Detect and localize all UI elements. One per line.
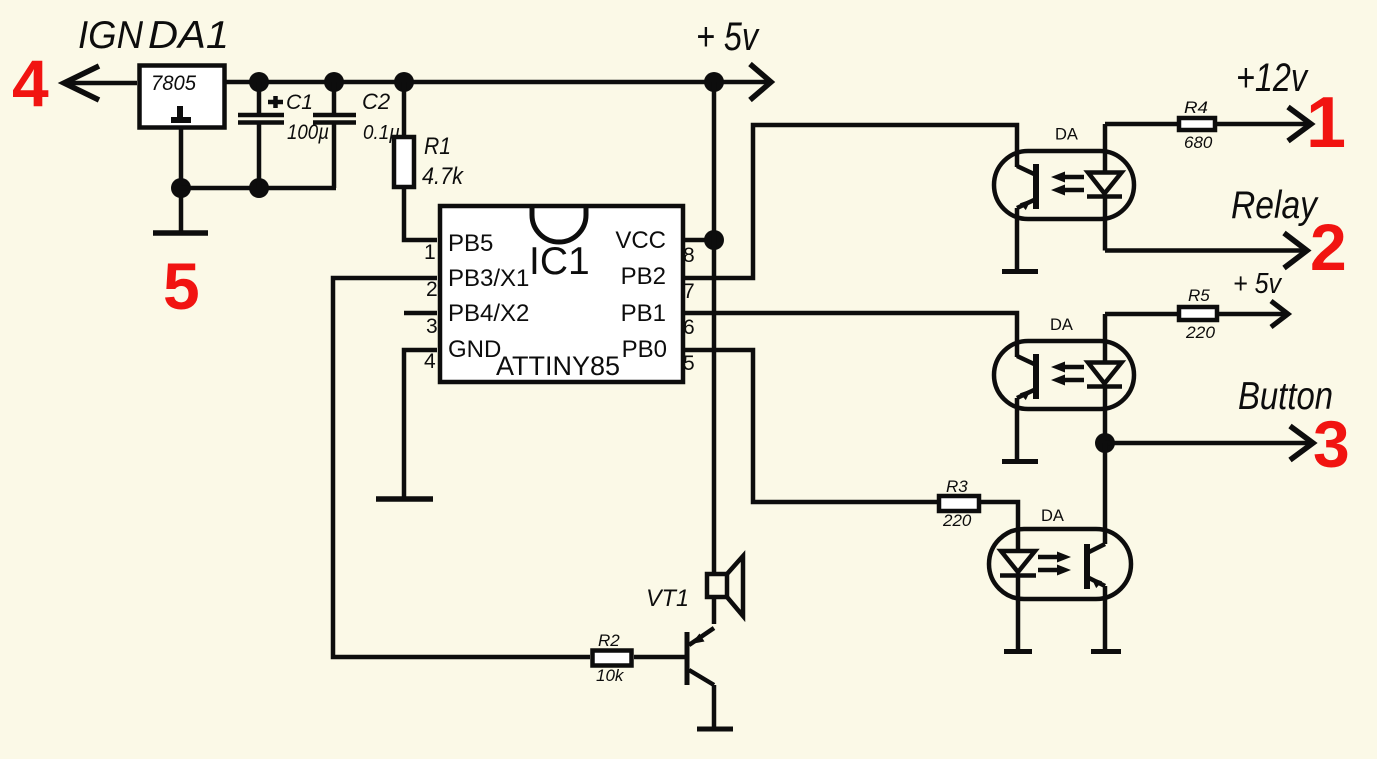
ground (VT1 emitter) xyxy=(697,727,733,732)
opto 2 light arrows xyxy=(1051,362,1084,386)
wire opto 1 LED anode to R4 xyxy=(1105,122,1179,127)
svg-text:PB1: PB1 xyxy=(621,300,666,327)
opto 2 phototransistor xyxy=(1017,354,1036,459)
junction dot button node xyxy=(1095,433,1115,453)
svg-text:R1: R1 xyxy=(424,133,451,160)
terminal bar (opto 3 emitter) xyxy=(1091,649,1121,654)
resistor R3 xyxy=(939,496,979,511)
opto 1 LED xyxy=(1087,124,1122,251)
svg-text:3: 3 xyxy=(426,315,438,338)
junction dot R1 top xyxy=(394,72,414,92)
wire R4 to terminal 1 xyxy=(1215,122,1308,127)
svg-text:DA: DA xyxy=(1041,507,1064,525)
svg-text:PB0: PB0 xyxy=(622,336,667,363)
svg-text:+ 5v: + 5v xyxy=(696,15,760,59)
junction dot ground bus xyxy=(171,178,191,198)
wire pin 7 PB2 to optocoupler 1 xyxy=(684,125,1017,278)
terminal 3 arrowhead xyxy=(1290,426,1313,460)
svg-text:IC1: IC1 xyxy=(529,240,590,283)
svg-text:C1: C1 xyxy=(286,90,313,114)
wire R5 to +5v terminal xyxy=(1217,312,1285,317)
svg-text:DA: DA xyxy=(1055,126,1078,144)
terminal bar (opto 3 LED cathode) xyxy=(1004,649,1032,654)
svg-text:ATTINY85: ATTINY85 xyxy=(496,351,620,381)
svg-text:VT1: VT1 xyxy=(646,585,689,612)
svg-text:R3: R3 xyxy=(946,477,968,496)
+5v rail wire xyxy=(225,80,767,85)
svg-text:R2: R2 xyxy=(598,631,620,650)
capacitor C1 100µ xyxy=(238,82,284,188)
svg-text:VCC: VCC xyxy=(615,227,666,254)
wire pin 8 VCC to +5v rail xyxy=(684,238,714,243)
svg-text:5: 5 xyxy=(683,352,695,375)
wire R2 to VT1 base xyxy=(634,655,687,660)
terminal 4 arrowhead xyxy=(64,66,99,100)
svg-text:1: 1 xyxy=(1306,83,1346,163)
svg-text:10k: 10k xyxy=(596,666,625,685)
opto 1 light arrows xyxy=(1051,172,1084,196)
junction dot VCC xyxy=(704,230,724,250)
svg-text:R5: R5 xyxy=(1188,286,1210,305)
opto 3 light arrows xyxy=(1038,552,1071,576)
svg-text:3: 3 xyxy=(1313,407,1350,481)
wire speaker to VT1 collector xyxy=(712,597,717,624)
IC U1 ATTINY85 body xyxy=(440,206,683,382)
terminal 2 arrowhead xyxy=(1284,233,1307,268)
opto 3 LED xyxy=(1000,551,1036,649)
resistor R4 xyxy=(1179,118,1215,130)
ground (opto 2 emitter) xyxy=(1002,459,1038,464)
svg-text:8: 8 xyxy=(683,244,695,267)
wire opto 3 collector to button node xyxy=(1103,443,1108,544)
+5v rail arrowhead xyxy=(750,64,771,100)
svg-text:PB2: PB2 xyxy=(621,263,666,290)
svg-text:5: 5 xyxy=(163,249,200,323)
speaker LS1 xyxy=(707,556,743,616)
wire R3 to optocoupler 3 LED xyxy=(981,502,1018,551)
resistor R2 xyxy=(593,651,632,666)
svg-text:GND: GND xyxy=(448,336,501,363)
capacitor C2 0.1µ xyxy=(313,82,356,188)
junction dot +5v rail xyxy=(704,72,724,92)
svg-text:4.7k: 4.7k xyxy=(422,163,465,190)
svg-text:DA: DA xyxy=(1050,316,1073,334)
wire pin 2 PB3 to R2 xyxy=(333,278,590,657)
terminal 1 arrowhead xyxy=(1288,107,1311,141)
svg-text:+ 5v: + 5v xyxy=(1233,268,1282,300)
transistor VT1 xyxy=(687,628,714,727)
optocoupler DA (bottom) body xyxy=(989,529,1131,599)
svg-text:7: 7 xyxy=(683,280,695,303)
junction dot C1 bottom xyxy=(249,178,269,198)
wire +5v rail down to speaker xyxy=(712,82,717,574)
svg-text:7805: 7805 xyxy=(151,71,197,95)
svg-text:PB4/X2: PB4/X2 xyxy=(448,300,529,327)
svg-text:220: 220 xyxy=(942,511,972,530)
ground (DA1) xyxy=(153,230,208,236)
wire opto 1 LED cathode to terminal 2 xyxy=(1105,248,1304,253)
wire ground bus xyxy=(181,186,336,191)
svg-text:6: 6 xyxy=(683,316,695,339)
junction dot C1 top xyxy=(249,72,269,92)
svg-text:DA1: DA1 xyxy=(148,14,229,57)
svg-text:680: 680 xyxy=(1184,133,1213,152)
wire pin 5 PB0 to R3 xyxy=(684,350,937,502)
svg-text:PB3/X1: PB3/X1 xyxy=(448,265,529,292)
wire DA1 ground stem xyxy=(179,129,184,231)
svg-text:C2: C2 xyxy=(362,89,390,114)
wire pin 3 stub xyxy=(404,311,437,316)
wire R1 to pin 1 xyxy=(404,187,437,240)
resistor R5 xyxy=(1179,307,1217,320)
wire opto 2 LED anode to R5 xyxy=(1105,312,1179,317)
opto 1 phototransistor xyxy=(1017,164,1036,269)
svg-text:Relay: Relay xyxy=(1231,184,1319,227)
junction dot C2 top xyxy=(324,72,344,92)
svg-text:PB5: PB5 xyxy=(448,230,493,257)
opto 2 LED xyxy=(1087,314,1122,443)
svg-text:4: 4 xyxy=(12,46,49,120)
opto 3 phototransistor xyxy=(1087,544,1105,649)
svg-text:220: 220 xyxy=(1185,323,1216,342)
svg-text:R4: R4 xyxy=(1184,98,1208,117)
svg-text:IGN: IGN xyxy=(78,14,144,57)
voltage regulator DA1 7805 xyxy=(140,66,225,128)
svg-text:+12v: +12v xyxy=(1236,56,1309,100)
optocoupler DA (middle) body xyxy=(994,341,1134,409)
+5v terminal arrowhead xyxy=(1271,301,1288,327)
wire terminal 4 to DA1 xyxy=(64,81,137,86)
wire button node to terminal 3 xyxy=(1105,441,1310,446)
svg-text:1: 1 xyxy=(424,241,436,264)
resistor R1 xyxy=(394,82,414,187)
ground (IC1 GND) xyxy=(376,496,433,502)
svg-text:2: 2 xyxy=(426,278,438,301)
wire pin 4 to ground xyxy=(404,350,437,497)
wire pin 6 PB1 to optocoupler 2 xyxy=(684,313,1017,357)
ground (opto 1 emitter) xyxy=(1002,269,1038,274)
optocoupler DA (top) body xyxy=(994,151,1134,219)
svg-text:4: 4 xyxy=(424,350,436,373)
svg-text:2: 2 xyxy=(1310,210,1347,284)
